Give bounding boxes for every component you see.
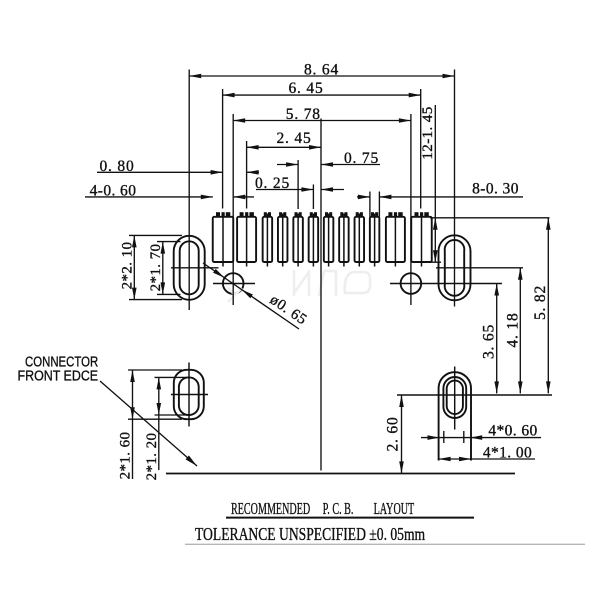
svg-text:ø0. 65: ø0. 65 [267, 292, 310, 328]
dimension line 4-0.60 (right tail) [233, 196, 254, 198]
dimension line 0.80 (right tail) [247, 171, 259, 173]
svg-text:2. 60: 2. 60 [385, 417, 402, 452]
faint artifact line at bottom [185, 543, 585, 545]
svg-text:12-1. 45: 12-1. 45 [420, 106, 436, 159]
left shell slot inner (2*1.70) [180, 241, 199, 294]
arrows 2.45 [247, 145, 259, 150]
dimension line 8-0.30 (leader to text underline) [379, 196, 523, 198]
arrows 2.60 [399, 395, 404, 407]
bottom-left slot vertical centerline [188, 363, 190, 427]
extension line: pad P1 center (6.45/0.80) [222, 89, 224, 209]
arrows 2*1.20 [157, 377, 162, 389]
extension lines 2*1.60 [128, 369, 182, 371]
left via hole (diam 0.65) [223, 273, 244, 294]
svg-text:0. 75: 0. 75 [344, 150, 379, 167]
svg-text:2*2. 10: 2*2. 10 [119, 242, 135, 290]
arrows 4*0.60 [428, 435, 440, 440]
dimension line 5.82 [547, 218, 549, 394]
dimension line 0.75 (right part with text underline) [321, 164, 380, 166]
pin number labels (illegible smudges) [216, 212, 220, 216]
pad P10 [370, 217, 380, 262]
drawing vertical centerline [320, 119, 322, 471]
svg-text:2*1. 20: 2*1. 20 [144, 433, 160, 481]
pad P6 [309, 217, 319, 262]
pad P7 [324, 217, 334, 262]
arrow connector front edge [186, 456, 198, 467]
svg-text:5. 82: 5. 82 [532, 285, 549, 320]
pad P1 (A1/B12 wide) [213, 217, 234, 262]
arrows 8.64 [189, 74, 201, 79]
tolerance note [195, 525, 426, 544]
extension lines 2*1.20 [155, 376, 188, 378]
pad P12 (B1/A12 wide) [411, 217, 432, 262]
dimension line 0.80 (leader from text) [97, 171, 223, 173]
extension line: left slot center (8.64) [188, 70, 190, 311]
dimension line 2*1.60 [132, 370, 134, 479]
dimension line 2*1.70 [162, 242, 164, 295]
watermark (faint) [228, 270, 370, 302]
dimension line 8-0.30 (left tail) [357, 196, 370, 198]
extension line: pad bottom (12-1.45) [428, 261, 441, 263]
svg-text:3. 65: 3. 65 [481, 324, 498, 359]
pad P5 [293, 217, 303, 262]
svg-text:TOLERANCE UNSPECIFIED ±0. 05mm: TOLERANCE UNSPECIFIED ±0. 05mm [195, 525, 426, 544]
right via hole [401, 273, 422, 294]
dimension line 8.64 [189, 75, 454, 77]
extension line: left via / pad P1 edge (5.78) [232, 114, 234, 305]
dimension line 4.18 [519, 268, 521, 394]
right slot horizontal centerline extending to 4.18 dimension [436, 267, 523, 269]
svg-text:LAYOUT: LAYOUT [374, 499, 415, 519]
extension lines 2*2.10 [129, 234, 182, 236]
dimension line 2.45 [247, 146, 321, 148]
right shell slot inner [445, 240, 465, 296]
right via horizontal centerline extending to 3.65 dimension [390, 283, 502, 285]
dimension line 4*0.60 (with text underline) [421, 437, 541, 439]
dimension line 4*1.00 (with text underline) [439, 458, 535, 460]
bottom-right slot horizontal centerline / 2.60 reference [397, 394, 552, 396]
svg-text:8. 64: 8. 64 [304, 62, 339, 79]
arrows 0.75 [286, 162, 298, 167]
svg-text:2. 45: 2. 45 [277, 130, 312, 147]
pad P11 (B4/A9 wide) [386, 217, 405, 262]
arrows 0.80 [211, 170, 223, 175]
pad P2 (A4/B9 wide) [237, 217, 256, 262]
bottom-right leg pad middle stadium [443, 377, 466, 418]
svg-text:2*1. 60: 2*1. 60 [118, 432, 134, 480]
extension line: pad P6 center (0.25) [312, 185, 314, 210]
left shell slot outer (2*2.10) [174, 236, 205, 300]
extension line: right slot center (8.64) [454, 70, 456, 307]
arrows 4.18 [518, 268, 523, 280]
extension line: right via (5.78) [410, 114, 412, 305]
arrows 0.25 [301, 187, 313, 192]
svg-text:4-0. 60: 4-0. 60 [90, 183, 137, 200]
extension stubs 4*0.60 [443, 431, 445, 443]
dimension line 2*2.10 [133, 235, 135, 299]
dimension line 6.45 [223, 94, 421, 96]
bottom-right slot vertical centerline [454, 367, 456, 430]
right shell slot outer [439, 235, 471, 300]
extension line: pad P5 center (0.75) [297, 160, 299, 209]
left slot horizontal centerline [171, 267, 219, 269]
svg-text:6. 45: 6. 45 [289, 80, 324, 97]
svg-text:2*1. 70: 2*1. 70 [148, 244, 164, 292]
dimension line 0.75 (left part) [277, 164, 298, 166]
title RECOMMENDED P.C.B. LAYOUT [231, 499, 310, 519]
dimension line 4-0.60 (leader from text) [85, 196, 213, 198]
leader: hole diameter 0.65 [203, 263, 299, 329]
svg-text:0. 80: 0. 80 [100, 158, 135, 175]
leader: connector front edge callout [100, 381, 197, 466]
pad P9 [355, 217, 365, 262]
dimension line 3.65 [496, 284, 498, 394]
svg-text:5. 78: 5. 78 [286, 106, 321, 123]
arrows 5.82 [546, 218, 551, 230]
svg-text:4. 18: 4. 18 [504, 313, 521, 348]
extension line: pad top row to 5.82 [430, 217, 550, 219]
arrows 8-0.30 [358, 195, 370, 200]
extension line: pad P12 center (6.45) [420, 89, 422, 209]
dimension line 2*1.20 [158, 377, 160, 470]
bottom-left leg slot outer (2*1.60) [174, 370, 204, 419]
label CONNECTOR FRONT EDCE [18, 353, 99, 384]
left via horizontal centerline [213, 283, 255, 285]
pad P8 [339, 217, 349, 262]
svg-text:4*0. 60: 4*0. 60 [488, 422, 537, 439]
dimension line 0.25 (underline + leader) [256, 189, 313, 191]
arrows 3.65 [494, 284, 499, 296]
dimension line 12-1.45 (pad height) [434, 105, 436, 262]
underline of RECOMMENDED P.C.B. LAYOUT [226, 517, 474, 519]
extension line: pad P2 center (2.45/0.80) [246, 141, 248, 209]
arrows 12-1.45 [433, 218, 438, 230]
svg-text:8-0. 30: 8-0. 30 [472, 181, 519, 198]
dimension line 0.25 (right tail) [321, 189, 344, 191]
bottom-right leg hole inner (4*0.60) [447, 381, 463, 414]
svg-text:4*1. 00: 4*1. 00 [483, 445, 532, 462]
arrows 6.45 [223, 93, 235, 98]
svg-text:RECOMMENDED: RECOMMENDED [231, 499, 310, 519]
extension lines 2*1.70 [157, 241, 181, 243]
pad P3 [263, 217, 273, 262]
arrows 2*1.60 [130, 370, 135, 382]
dimension line 2.60 [401, 395, 403, 473]
arrows hole diameter leader [213, 269, 224, 278]
svg-text:P. C. B.: P. C. B. [323, 499, 354, 519]
bottom-left leg slot inner (2*1.20) [179, 377, 199, 415]
dimension line 5.78 [233, 120, 411, 122]
arrows 2*1.70 [161, 242, 166, 254]
arrows 4*1.00 [439, 457, 451, 462]
extension line: pad P10 right edge (8-0.30) [378, 192, 380, 217]
svg-text:FRONT EDCE: FRONT EDCE [18, 368, 99, 384]
bottom-right leg slot outer U-profile (4*1.00) [439, 372, 471, 460]
pad P4 [278, 217, 288, 262]
svg-text:0. 25: 0. 25 [255, 175, 290, 192]
connector front edge line [166, 473, 515, 475]
bottom-left slot horizontal centerline [171, 394, 208, 396]
arrows 5.78 [233, 118, 245, 123]
arrows 2*2.10 [132, 235, 137, 247]
extension line: pad P10 left edge (8-0.30) [369, 192, 371, 217]
arrows 4-0.60 [201, 195, 213, 200]
